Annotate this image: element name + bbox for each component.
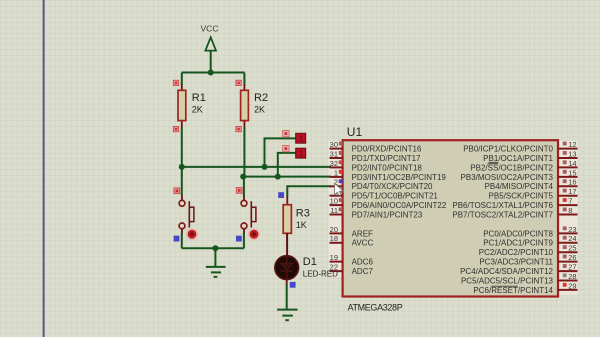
pin 15 PB3/MOSI/OC2A/PCINT3 <box>461 168 578 182</box>
pin 1 PD3/INT1/OC2B/PCINT19 <box>330 168 447 182</box>
svg-text:AVCC: AVCC <box>352 239 374 248</box>
pin 14 PB2SS/OC1B/PCINT2 <box>470 159 577 173</box>
pin 2 PD4/T0/XCK/PCINT20 <box>330 178 434 192</box>
svg-text:24: 24 <box>568 234 576 243</box>
svg-text:PB7/TOSC2/XTAL2/PCINT7: PB7/TOSC2/XTAL2/PCINT7 <box>452 210 553 219</box>
ground symbol 1 <box>206 267 226 277</box>
svg-text:PB6/TOSC1/XTAL1/PCINT6: PB6/TOSC1/XTAL1/PCINT6 <box>452 201 553 210</box>
pin 12 PB0/ICP1/CLKO/PCINT0 <box>463 140 577 154</box>
junction node A left <box>179 164 185 170</box>
pin 19 ADC6 <box>330 253 374 267</box>
svg-text:19: 19 <box>330 253 338 262</box>
junction VCC rail <box>208 70 214 76</box>
wire net B horizontal to pin PD3 <box>243 176 331 178</box>
pin 25 PC2/ADC2/PCINT10 <box>479 244 578 258</box>
svg-text:PC2/ADC2/PCINT10: PC2/ADC2/PCINT10 <box>479 248 554 257</box>
sheet border line <box>43 0 45 337</box>
svg-text:32: 32 <box>330 159 338 168</box>
wire R1 top leg <box>181 73 183 86</box>
svg-text:PC4/ADC4/SDA/PCINT12: PC4/ADC4/SDA/PCINT12 <box>460 267 553 276</box>
svg-text:PC3/ADC3/PCINT11: PC3/ADC3/PCINT11 <box>479 258 553 267</box>
svg-text:R3: R3 <box>296 207 310 219</box>
logic state box 2 <box>283 145 306 158</box>
wire net A horizontal to pin PD2 <box>182 166 331 168</box>
svg-text:PC6/RESET/PCINT14: PC6/RESET/PCINT14 <box>473 286 553 295</box>
svg-text:D1: D1 <box>303 256 317 268</box>
svg-text:1: 1 <box>334 168 338 177</box>
pin 16 PB4/MISO/PCINT4 <box>485 178 578 192</box>
svg-text:1K: 1K <box>296 220 307 230</box>
svg-text:1: 1 <box>299 134 304 144</box>
svg-text:PD6/AIN0/OC0A/PCINT22: PD6/AIN0/OC0A/PCINT22 <box>352 201 447 210</box>
svg-text:PB1/OC1A/PCINT1: PB1/OC1A/PCINT1 <box>483 154 553 163</box>
pin 17 PB5/SCK/PCINT5 <box>489 187 578 201</box>
svg-text:7: 7 <box>568 197 572 206</box>
wire ground stem <box>214 248 216 266</box>
svg-text:17: 17 <box>568 187 576 196</box>
svg-text:14: 14 <box>568 159 576 168</box>
wire branch to logic state 2 <box>278 153 296 177</box>
LED D1 labels <box>303 256 338 279</box>
logic state box 1 <box>283 130 306 143</box>
LED D1 <box>275 256 299 288</box>
resistor R1 <box>173 80 206 132</box>
svg-text:1: 1 <box>299 149 304 159</box>
svg-text:U1: U1 <box>347 125 363 139</box>
svg-text:PD3/INT1/OC2B/PCINT19: PD3/INT1/OC2B/PCINT19 <box>352 173 447 182</box>
svg-text:10: 10 <box>330 197 338 206</box>
svg-text:ATMEGA328P: ATMEGA328P <box>348 303 403 313</box>
svg-text:11: 11 <box>330 206 338 215</box>
pin 20 AREF <box>330 225 374 239</box>
pin 26 PC3/ADC3/PCINT11 <box>479 253 577 267</box>
wire R1 bottom leg <box>181 127 183 167</box>
svg-text:2K: 2K <box>192 105 203 115</box>
wire button1 top leg <box>181 167 183 196</box>
svg-text:15: 15 <box>568 168 576 177</box>
svg-text:ADC6: ADC6 <box>352 258 374 267</box>
svg-text:R1: R1 <box>192 92 206 104</box>
pin 7 PB6/TOSC1/XTAL1/PCINT6 <box>452 197 577 211</box>
svg-text:30: 30 <box>330 140 338 149</box>
pin 30 PD0/RXD/PCINT16 <box>330 140 422 154</box>
chip U1 ATMEGA328P body <box>343 140 558 296</box>
wire R2 top leg <box>243 73 245 86</box>
pin 22 ADC7 <box>330 263 374 277</box>
resistor R3 <box>278 192 310 233</box>
svg-text:R2: R2 <box>254 92 268 104</box>
pin 10 PD6/AIN0/OC0A/PCINT22 <box>330 197 447 211</box>
svg-text:2K: 2K <box>254 105 265 115</box>
svg-text:PC0/ADC0/PCINT8: PC0/ADC0/PCINT8 <box>483 229 553 238</box>
svg-text:20: 20 <box>330 225 338 234</box>
pin 9 PD5/T1/OC0B/PCINT21 <box>330 187 439 201</box>
svg-text:PB5/SCK/PCINT5: PB5/SCK/PCINT5 <box>489 192 554 201</box>
wire R2 bottom leg to node B <box>243 127 245 177</box>
pin 23 PC0/ADC0/PCINT8 <box>483 225 577 239</box>
svg-text:PD2/INT0/PCINT18: PD2/INT0/PCINT18 <box>352 163 423 172</box>
svg-text:26: 26 <box>568 253 576 262</box>
pin highlight bands <box>329 141 343 277</box>
wire VCC rail <box>182 72 245 74</box>
svg-text:PB2/SS/OC1B/PCINT2: PB2/SS/OC1B/PCINT2 <box>470 163 553 172</box>
svg-text:PD0/RXD/PCINT16: PD0/RXD/PCINT16 <box>352 145 422 154</box>
svg-text:PD1/TXD/PCINT17: PD1/TXD/PCINT17 <box>352 154 421 163</box>
pin 24 PC1/ADC1/PCINT9 <box>483 234 577 248</box>
svg-text:VCC: VCC <box>201 24 219 34</box>
pin 11 PD7/AIN1/PCINT23 <box>330 206 423 220</box>
svg-text:23: 23 <box>568 225 576 234</box>
pin 29 PC6RESET/PCINT14 <box>473 281 577 295</box>
svg-text:25: 25 <box>568 244 576 253</box>
wire branch to logic state 1 <box>265 138 296 167</box>
wire buttons to ground <box>182 247 244 249</box>
svg-text:LED-RED: LED-RED <box>303 270 338 279</box>
junction node B left <box>240 174 246 180</box>
svg-text:PB3/MOSI/OC2A/PCINT3: PB3/MOSI/OC2A/PCINT3 <box>461 173 554 182</box>
svg-text:29: 29 <box>568 281 576 290</box>
power symbol VCC <box>201 24 219 73</box>
wire R3 to LED <box>286 233 288 257</box>
pin 27 PC4/ADC4/SDA/PCINT12 <box>460 263 577 277</box>
pin 32 PD2/INT0/PCINT18 <box>330 159 423 173</box>
pin 28 PC5/ADC5/SCL/PCINT13 <box>461 272 578 286</box>
pin 31 PD1/TXD/PCINT17 <box>330 149 422 163</box>
svg-text:ADC7: ADC7 <box>352 267 374 276</box>
junction node B branch <box>275 174 281 180</box>
svg-text:31: 31 <box>330 149 338 158</box>
pushbutton S1 <box>174 188 198 242</box>
wire button2 bottom leg <box>243 233 245 248</box>
pin 18 AVCC <box>330 234 374 248</box>
svg-text:PD4/T0/XCK/PCINT20: PD4/T0/XCK/PCINT20 <box>352 182 433 191</box>
junction ground node <box>212 245 218 251</box>
svg-text:27: 27 <box>568 263 576 272</box>
svg-text:AREF: AREF <box>352 229 373 238</box>
wire button2 top leg <box>243 177 245 196</box>
svg-text:PC5/ADC5/SCL/PCINT13: PC5/ADC5/SCL/PCINT13 <box>461 276 554 285</box>
junction node A branch <box>262 164 268 170</box>
resistor R2 <box>236 80 268 132</box>
mouse cursor <box>335 183 343 195</box>
ground symbol 2 <box>277 310 298 321</box>
pin 8 PB7/TOSC2/XTAL2/PCINT7 <box>452 206 577 220</box>
svg-text:PD7/AIN1/PCINT23: PD7/AIN1/PCINT23 <box>352 210 423 219</box>
pushbutton S2 <box>236 188 260 242</box>
svg-text:12: 12 <box>568 140 576 149</box>
wire LED to ground <box>286 279 288 285</box>
svg-text:16: 16 <box>568 178 576 187</box>
svg-text:PD5/T1/OC0B/PCINT21: PD5/T1/OC0B/PCINT21 <box>352 192 439 201</box>
wire button1 bottom leg <box>181 233 183 248</box>
svg-text:8: 8 <box>568 206 572 215</box>
svg-text:13: 13 <box>568 149 576 158</box>
svg-text:28: 28 <box>568 272 576 281</box>
pin 13 PB1/OC1A/PCINT1 <box>483 149 577 163</box>
svg-text:PC1/ADC1/PCINT9: PC1/ADC1/PCINT9 <box>483 239 553 248</box>
svg-text:PB0/ICP1/CLKO/PCINT0: PB0/ICP1/CLKO/PCINT0 <box>463 145 553 154</box>
svg-text:PB4/MISO/PCINT4: PB4/MISO/PCINT4 <box>485 182 554 191</box>
wire PD4 to R3 <box>287 186 331 196</box>
svg-text:18: 18 <box>330 234 338 243</box>
